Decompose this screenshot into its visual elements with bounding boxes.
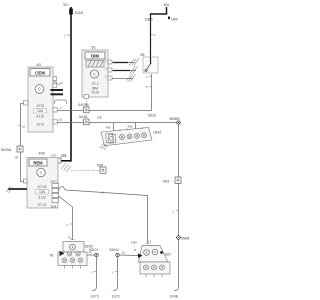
svg-text:4/56: 4/56: [39, 152, 45, 156]
pin 1 DIM: [108, 60, 112, 64]
svg-text:4 L/5: 4 L/5: [36, 115, 43, 119]
svg-text:2.1: 2.1: [148, 240, 152, 244]
svg-text:CAN: CAN: [39, 190, 46, 194]
svg-text:31/4B: 31/4B: [170, 295, 178, 299]
pin 2 DIM: [108, 68, 112, 72]
svg-text:54/3: 54/3: [163, 180, 169, 184]
svg-text:31/73: 31/73: [91, 295, 99, 299]
pin tick 5: [149, 76, 152, 78]
pin 3 DIM: [108, 76, 112, 80]
svg-text:Y: Y: [91, 270, 93, 274]
svg-text:55/B85: 55/B85: [170, 117, 180, 121]
wire: CAN bus thick bar 1: [51, 89, 64, 91]
svg-text:J/7 LS: J/7 LS: [37, 203, 46, 207]
svg-text:CAN: CAN: [37, 109, 44, 113]
wire: lamp to splice 53K01: [87, 254, 97, 256]
node 55/B5: [176, 235, 181, 240]
svg-text:30+: 30+: [63, 3, 69, 7]
wire: thick battery feed vertical: [59, 7, 71, 161]
svg-text:J/7 B: J/7 B: [36, 104, 43, 108]
svg-text:55/B5: 55/B5: [181, 236, 190, 240]
svg-text:7B: 7B: [50, 254, 54, 258]
svg-text:J/76: J/76: [51, 154, 56, 158]
svg-text:5/1: 5/1: [92, 46, 97, 50]
wire: CEM left output to 54/26A: [21, 104, 24, 147]
wire: DIM dimmer output stub: [86, 99, 88, 108]
wire: thick horizontal to switch feed: [150, 13, 167, 15]
svg-text:53K01: 53K01: [89, 248, 98, 252]
ground hatch of panel: [100, 143, 108, 150]
ground 31/4B right: [174, 287, 179, 291]
pin REM top right: [56, 158, 61, 163]
svg-text:C: C: [173, 209, 175, 213]
svg-text:C: C: [38, 87, 41, 92]
svg-text:Y/L/5: Y/L/5: [91, 91, 99, 95]
svg-text:11B/5: 11B/5: [145, 18, 153, 22]
svg-text:REM: REM: [33, 161, 43, 166]
svg-text:24/31: 24/31: [51, 180, 58, 184]
svg-text:B/16: B/16: [51, 205, 57, 209]
wire: ground drop mid: [117, 257, 119, 287]
svg-text:53K04: 53K04: [110, 248, 119, 252]
svg-text:3/8: 3/8: [140, 53, 145, 57]
bulb b: [127, 134, 132, 139]
twisted pair hatch at REM: [61, 163, 71, 172]
bulb left lamp 3: [78, 258, 83, 263]
svg-text:J/7 B: J/7 B: [36, 123, 43, 127]
svg-text:1040: 1040: [131, 241, 137, 245]
label 11B/4: [168, 17, 170, 20]
wire: CAN twisted thick into REM left: [8, 188, 27, 190]
pin CEM right y122: [53, 120, 57, 124]
svg-text:LG: LG: [22, 124, 25, 128]
right lamp bottom pins: [146, 274, 162, 277]
svg-text:54/26A: 54/26A: [1, 148, 12, 152]
svg-text:1B/16: 1B/16: [153, 131, 162, 135]
bulb d: [142, 133, 147, 138]
bulb left lamp 1: [62, 258, 67, 263]
wire: ground drop left: [96, 257, 98, 287]
wire: far right vertical from 55/B85: [178, 124, 180, 287]
wire: DIM output 1 with off-page hatch: [112, 62, 135, 64]
pin REM left: [24, 179, 28, 183]
wire: DIM output 2 with off-page hatch: [112, 70, 136, 72]
ground 31/73 left: [92, 287, 97, 291]
svg-text:GR: GR: [15, 156, 19, 160]
pin CEM right upper a: [53, 77, 57, 81]
svg-text:30a: 30a: [164, 3, 170, 7]
fuse 11G/8: [69, 9, 73, 15]
bulb right lamp 2: [151, 265, 156, 270]
svg-text:DIM: DIM: [91, 54, 99, 59]
wire: stub to panel pin a: [113, 123, 115, 131]
bulb left lamp mid 1: [67, 252, 71, 256]
svg-text:53/7: 53/7: [165, 253, 171, 257]
svg-text:11G/8: 11G/8: [75, 11, 84, 15]
wire: CAN staple loop: [55, 100, 67, 104]
svg-text:1B/4: 1B/4: [171, 18, 178, 22]
pin CEM right upper b: [53, 84, 57, 88]
svg-text:13B: 13B: [97, 116, 102, 120]
wire: thick stub from 30a: [166, 7, 168, 14]
wire: CEM to panel lamps (y122): [57, 122, 178, 124]
wire: DIM output 3 with off-page hatch: [112, 78, 133, 80]
svg-text:LB: LB: [59, 118, 62, 122]
svg-text:53G6: 53G6: [148, 114, 156, 118]
svg-text:C: C: [40, 170, 43, 175]
lamp panel 18/16 (instrument illumination strip): [101, 127, 152, 146]
bulb a: [120, 135, 125, 140]
wire: switch feed vertical: [150, 14, 152, 57]
switch 3/8: [151, 34, 153, 36]
svg-text:4/5: 4/5: [37, 63, 42, 67]
arrow into right lamp: [138, 253, 143, 258]
pin 4 DIM bottom: [84, 95, 89, 99]
splice dot + label 53/7: [160, 251, 163, 254]
lamp bottom pins: [65, 266, 81, 269]
bulb left lamp 2: [70, 258, 75, 263]
wire: shield drain (dashed): [71, 170, 100, 172]
pin tick 1 on feed wire: [67, 34, 72, 36]
wire: REM diagonal to left lamp: [59, 196, 73, 240]
svg-text:4/35: 4/35: [128, 125, 134, 129]
pin CEM right y110: [53, 108, 57, 112]
svg-text:54/1B: 54/1B: [79, 115, 87, 119]
pin CEM left: [24, 101, 29, 105]
wire: splice to right lamp: [119, 254, 138, 257]
wire tick C: [176, 210, 178, 212]
wire: CEM pigtail curl: [53, 82, 63, 85]
bulb right lamp 3: [159, 265, 164, 270]
wire: CAN bus thick bar 2: [51, 93, 64, 95]
svg-text:CEM: CEM: [35, 71, 45, 76]
bulb c: [135, 133, 140, 138]
wire: stub to panel pin b: [135, 123, 137, 130]
svg-text:31/73: 31/73: [112, 295, 120, 299]
svg-text:3 L/2: 3 L/2: [38, 196, 45, 200]
svg-text:276: 276: [61, 154, 67, 158]
arrow into lamp: [60, 251, 65, 256]
svg-text:Y: Y: [112, 270, 114, 274]
wire: down left side to REM: [21, 152, 28, 182]
wire: switch output down: [151, 74, 153, 111]
svg-text:B: B: [134, 248, 136, 252]
bulb left lamp mid 2: [76, 252, 80, 256]
bulb right lamp 1: [143, 265, 148, 270]
svg-text:C: C: [93, 72, 96, 77]
wire: CEM to switch (y110): [57, 110, 151, 112]
svg-text:4/35: 4/35: [106, 126, 112, 130]
svg-text:J/7 LS: J/7 LS: [37, 185, 46, 189]
ground 31/73 mid: [113, 287, 118, 291]
svg-text:64/25B: 64/25B: [79, 103, 89, 107]
wire: REM to right lamp with pigtail: [59, 187, 148, 244]
svg-text:4.1: 4.1: [68, 236, 72, 240]
